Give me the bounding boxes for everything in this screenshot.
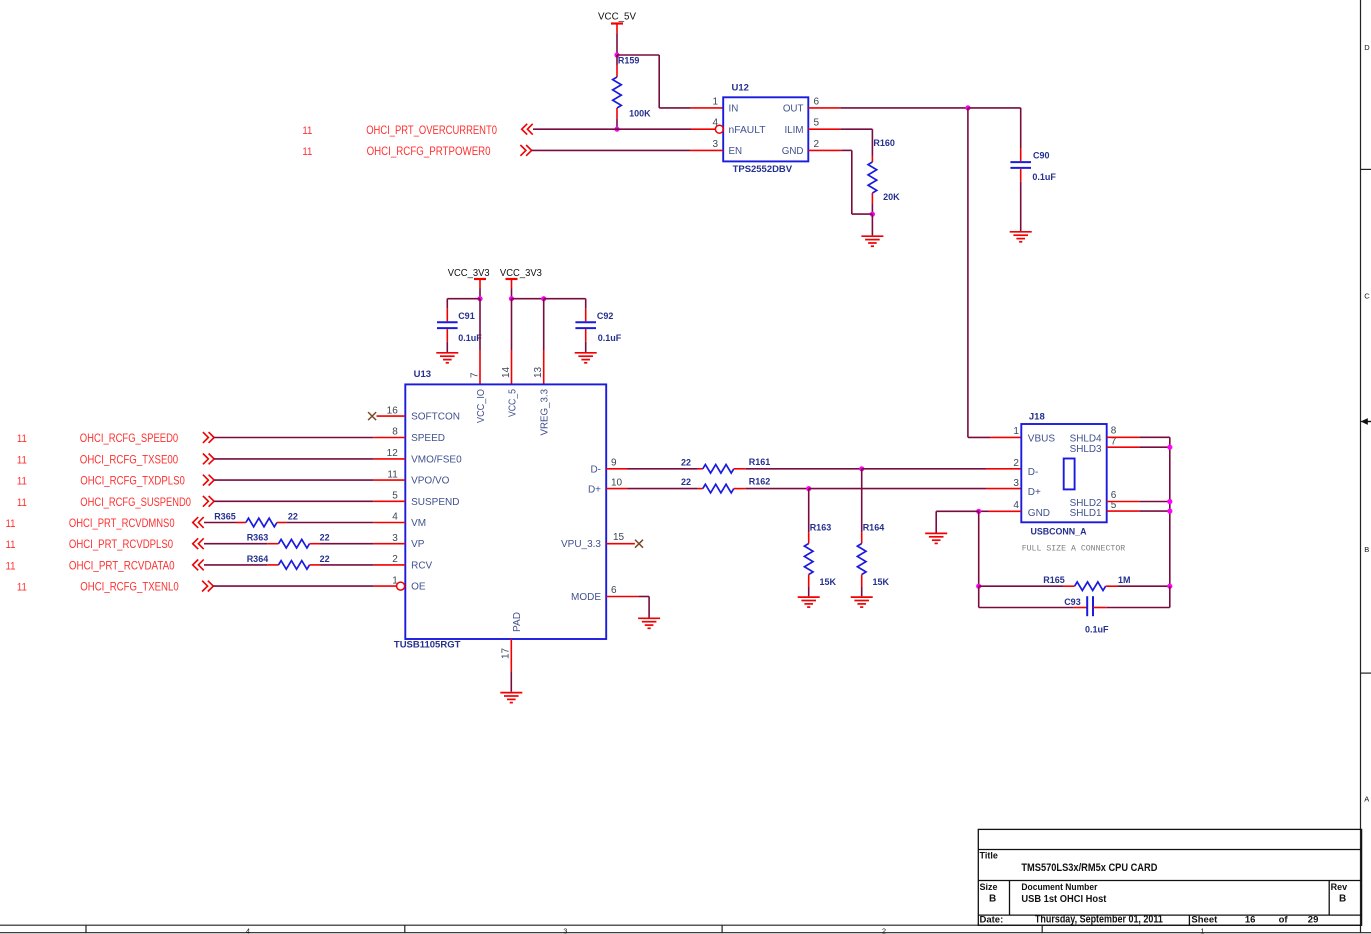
svg-text:16: 16 (1245, 915, 1256, 926)
svg-text:14: 14 (501, 366, 512, 378)
node OHCI_RCFG_PRTPOWER0 (302, 144, 490, 158)
svg-text:OHCI_PRT_RCVDPLS0: OHCI_PRT_RCVDPLS0 (69, 537, 173, 551)
wire (851, 150, 853, 214)
pin 16 stub (377, 415, 406, 417)
svg-text:0.1uF: 0.1uF (458, 333, 482, 343)
pin 2 stub J18 D- (986, 468, 1021, 470)
off-page connector OHCI_PRT_RCVDMNS0 (193, 517, 204, 528)
svg-text:R163: R163 (810, 523, 832, 533)
svg-text:VCC_5V: VCC_5V (598, 11, 636, 23)
svg-text:SHLD3: SHLD3 (1070, 444, 1102, 455)
ground under R163 (798, 597, 820, 607)
wire (1140, 446, 1170, 448)
svg-text:GND: GND (1028, 508, 1050, 519)
pointer arrow at zone C/B (1361, 418, 1368, 425)
wire (1140, 436, 1170, 438)
svg-text:D: D (1364, 43, 1370, 52)
pin 15 stub VPU_3.3 (606, 543, 635, 545)
wire (979, 585, 1064, 587)
svg-text:0.1uF: 0.1uF (598, 333, 622, 343)
svg-text:VCC_5: VCC_5 (508, 389, 519, 417)
svg-text:6: 6 (814, 96, 820, 107)
sheet border right edge (1361, 0, 1371, 933)
pin 5 stub SHLD1 (1107, 510, 1140, 512)
svg-text:IN: IN (729, 104, 739, 115)
svg-text:22: 22 (320, 533, 330, 543)
svg-text:OHCI_RCFG_SPEED0: OHCI_RCFG_SPEED0 (80, 431, 179, 445)
svg-text:20K: 20K (883, 192, 900, 202)
svg-text:OHCI_PRT_RCVDMNS0: OHCI_PRT_RCVDMNS0 (69, 516, 175, 530)
wire (978, 586, 980, 607)
op-amp U12 TPS2552DBV body (723, 83, 808, 176)
U13 top pin numbers (470, 366, 545, 378)
wire (511, 299, 513, 350)
node OHCI_PRT_RCVDMNS0 (6, 516, 175, 530)
svg-text:22: 22 (288, 512, 298, 522)
svg-text:11: 11 (6, 539, 16, 551)
svg-text:SHLD4: SHLD4 (1070, 434, 1102, 445)
svg-text:2: 2 (392, 554, 398, 565)
pin 2 stub GND (808, 149, 841, 151)
svg-text:Rev: Rev (1331, 882, 1348, 892)
J18 pin numbers (1013, 426, 1116, 511)
svg-text:SHLD1: SHLD1 (1070, 508, 1102, 519)
pin 14 stub VCC_5 (511, 350, 513, 384)
resistor (613, 77, 622, 108)
junction SHLD3 (1167, 445, 1172, 450)
pin stub VPO/VO (374, 479, 406, 481)
svg-text:RCV: RCV (411, 560, 432, 571)
svg-text:VREG_3.3: VREG_3.3 (540, 389, 551, 436)
resistor R162 (681, 477, 770, 493)
svg-text:Sheet: Sheet (1191, 915, 1218, 926)
wire (479, 289, 481, 299)
ground under PAD (500, 693, 522, 703)
wire (979, 510, 989, 512)
svg-text:C92: C92 (597, 311, 614, 321)
wire (617, 54, 659, 56)
svg-text:1M: 1M (1118, 575, 1131, 585)
wire (585, 342, 587, 352)
ground under C92 (575, 353, 597, 363)
wire (658, 55, 660, 108)
wire (543, 299, 545, 350)
no-connect on pin 16 SOFTCON (368, 412, 376, 420)
svg-text:13: 13 (533, 366, 544, 378)
off-page connector OHCI_RCFG_SPEED0 (203, 432, 214, 443)
svg-text:22: 22 (681, 477, 691, 487)
resistor (703, 465, 734, 474)
svg-text:11: 11 (302, 146, 312, 158)
resistor R159 (613, 55, 651, 119)
wire (968, 436, 990, 438)
title block (978, 829, 1361, 925)
resistor R161 (681, 457, 770, 473)
wire (214, 458, 374, 460)
wire (935, 511, 937, 532)
svg-text:SPEED: SPEED (411, 433, 445, 444)
svg-text:VPU_3.3: VPU_3.3 (561, 539, 601, 550)
wire (968, 107, 1021, 109)
svg-text:5: 5 (814, 118, 820, 129)
svg-text:R162: R162 (749, 477, 771, 487)
pin stub SUSPEND (374, 500, 406, 502)
junction R165 row (976, 584, 981, 589)
svg-text:100K: 100K (629, 109, 651, 119)
svg-text:1: 1 (1013, 426, 1019, 437)
svg-text:11: 11 (17, 433, 27, 445)
svg-text:16: 16 (387, 405, 399, 416)
wire (746, 468, 862, 470)
junction GND net (976, 509, 981, 514)
pin 6 stub MODE (606, 596, 638, 598)
off-page connector OHCI_RCFG_SUSPEND0 (203, 496, 214, 507)
wire (871, 214, 873, 235)
pin 4 stub VM (374, 522, 406, 524)
svg-text:OE: OE (411, 582, 426, 593)
ground under C90 (1010, 232, 1032, 242)
resistor (279, 561, 310, 570)
svg-text:TUSB1105RGT: TUSB1105RGT (394, 640, 461, 651)
svg-text:B: B (989, 894, 996, 905)
svg-text:VPO/VO: VPO/VO (411, 476, 450, 487)
op-amp U13 TUSB1105RGT body (394, 369, 606, 651)
svg-text:15: 15 (613, 532, 625, 543)
wire (533, 128, 617, 130)
wire (532, 149, 690, 151)
svg-text:OHCI_RCFG_TXSE00: OHCI_RCFG_TXSE00 (80, 452, 179, 466)
svg-text:Date:: Date: (980, 915, 1004, 926)
svg-text:C91: C91 (458, 311, 475, 321)
svg-text:B: B (1339, 894, 1346, 905)
no-connect on pin 15 VPU_3.3 (635, 540, 643, 548)
junction pin13 branch (541, 296, 546, 301)
svg-text:MODE: MODE (571, 592, 601, 603)
svg-text:OUT: OUT (783, 104, 804, 115)
svg-text:VBUS: VBUS (1028, 433, 1056, 444)
wire (639, 596, 650, 598)
wire (861, 469, 863, 532)
svg-text:3: 3 (392, 533, 398, 544)
svg-text:R164: R164 (863, 523, 885, 533)
svg-text:PAD: PAD (512, 612, 523, 632)
ground under R164 (851, 597, 873, 607)
resistor R364 (247, 554, 330, 569)
wire (871, 129, 873, 155)
svg-text:C: C (1364, 292, 1370, 301)
svg-text:J18: J18 (1029, 411, 1045, 422)
wire (852, 213, 873, 215)
pin 17 stub PAD (510, 639, 512, 671)
pin 6 stub SHLD2 (1107, 501, 1140, 503)
svg-text:1: 1 (712, 96, 718, 107)
title block text (980, 850, 1348, 925)
svg-text:D-: D- (1028, 467, 1039, 478)
node OHCI_RCFG_SUSPEND0 (17, 495, 191, 509)
wire (286, 522, 374, 524)
wire (321, 543, 374, 545)
svg-text:nFAULT: nFAULT (729, 125, 766, 136)
wire (861, 587, 863, 596)
off-page connector OHCI_PRT_RCVDPLS0 (193, 538, 204, 549)
wire (648, 597, 650, 618)
off-page connector OHCI_PRT_OVERCURRENT0 (522, 124, 533, 135)
pin 3 stub EN (690, 149, 723, 151)
power symbol VCC_3V3 (pin7) (474, 278, 486, 280)
resistor (1075, 582, 1106, 591)
node OHCI_RCFG_TXSE00 (17, 452, 179, 466)
wire (1020, 108, 1022, 148)
svg-text:3: 3 (1013, 478, 1019, 489)
pin 13 stub VREG_3.3 (543, 350, 545, 384)
resistor R160 (868, 138, 900, 204)
U12 pin names (729, 104, 804, 158)
wire (204, 564, 267, 566)
wire (840, 128, 872, 130)
junction node VCC_5V/R159 (614, 52, 619, 57)
svg-text:6: 6 (611, 585, 617, 596)
svg-text:17: 17 (501, 647, 512, 659)
svg-text:OHCI_RCFG_SUSPEND0: OHCI_RCFG_SUSPEND0 (80, 495, 191, 509)
svg-text:1: 1 (1200, 927, 1204, 934)
svg-text:Thursday, September 01, 2011: Thursday, September 01, 2011 (1035, 914, 1163, 926)
wire (479, 299, 481, 350)
svg-text:11: 11 (17, 497, 27, 509)
resistor (868, 162, 877, 193)
junction node OUT/VBUS (965, 105, 970, 110)
capacitor (437, 322, 458, 328)
node OHCI_PRT_OVERCURRENT0 (302, 123, 497, 137)
wire (840, 107, 968, 109)
pin 10 stub D+ (606, 488, 627, 490)
svg-text:VMO/FSE0: VMO/FSE0 (411, 454, 462, 465)
svg-text:Document Number: Document Number (1021, 882, 1097, 892)
ground at J18 GND (925, 533, 947, 543)
wire (1107, 607, 1170, 609)
wire (616, 24, 618, 35)
resistor R164 (857, 523, 889, 588)
svg-text:OHCI_PRT_OVERCURRENT0: OHCI_PRT_OVERCURRENT0 (366, 123, 497, 137)
ground under R160 (861, 236, 883, 246)
pin stub SPEED (374, 437, 406, 439)
svg-text:11: 11 (387, 469, 398, 480)
pin 1 stub IN (691, 107, 723, 109)
junction SHLD2 (1167, 499, 1172, 504)
capacitor C90 (1010, 148, 1056, 182)
power symbol VCC_3V3 (pin14) (506, 278, 518, 280)
svg-text:B: B (1364, 545, 1369, 554)
junction VCC_3V3/C91 (477, 296, 482, 301)
wire (746, 488, 809, 490)
svg-text:USBCONN_A: USBCONN_A (1031, 527, 1087, 538)
junction VCC_3V3/pin14 (509, 296, 514, 301)
svg-text:8: 8 (392, 427, 398, 438)
wire (214, 479, 374, 481)
J18 pin names (1028, 433, 1102, 519)
off-page connector OHCI_RCFG_TXENL0 (202, 581, 213, 592)
wire (808, 489, 810, 532)
resistor (703, 484, 734, 493)
wire (871, 204, 873, 214)
svg-text:0.1uF: 0.1uF (1085, 625, 1109, 635)
node OHCI_RCFG_TXENL0 (17, 580, 179, 594)
svg-text:11: 11 (302, 125, 312, 137)
pin 1 stub VBUS (990, 436, 1021, 438)
pin 8 stub SHLD4 (1107, 436, 1140, 438)
junction R165/shield (1167, 584, 1172, 589)
svg-text:EN: EN (729, 146, 743, 157)
pin 3 stub VP (374, 543, 406, 545)
svg-text:29: 29 (1308, 915, 1319, 926)
U12 pin 4 inversion bubble (715, 125, 723, 133)
wire (511, 279, 513, 289)
svg-text:4: 4 (246, 927, 250, 934)
wire shield vertical (1169, 437, 1171, 586)
connector J18 USBCONN_A body (1021, 411, 1106, 537)
svg-text:2: 2 (814, 139, 820, 150)
pin 7 stub SHLD3 (1107, 446, 1140, 448)
svg-text:R160: R160 (873, 138, 895, 148)
border zone numbers (246, 927, 1205, 934)
svg-text:TPS2552DBV: TPS2552DBV (733, 164, 793, 175)
svg-text:Size: Size (980, 882, 998, 892)
pin 7 stub VCC_IO (479, 350, 481, 384)
svg-text:A: A (1364, 795, 1369, 804)
pin 3 stub J18 D+ (986, 488, 1021, 490)
USB symbol inside J18 (1064, 459, 1075, 490)
pin 2 stub RCV (374, 564, 406, 566)
svg-text:OHCI_RCFG_TXENL0: OHCI_RCFG_TXENL0 (80, 580, 179, 594)
svg-text:SUSPEND: SUSPEND (411, 497, 459, 508)
svg-text:VCC_3V3: VCC_3V3 (500, 267, 542, 279)
svg-text:FULL SIZE A CONNECTOR: FULL SIZE A CONNECTOR (1022, 543, 1125, 553)
wire (214, 500, 374, 502)
svg-text:of: of (1279, 915, 1289, 926)
svg-text:12: 12 (387, 448, 399, 459)
wire (979, 607, 1074, 609)
wire (446, 342, 448, 352)
svg-text:D+: D+ (1028, 487, 1041, 498)
off-page connector OHCI_RCFG_TXDPLS0 (203, 475, 214, 486)
svg-text:9: 9 (611, 458, 617, 469)
sheet border bottom edge (0, 925, 1371, 933)
pin 6 stub OUT (808, 107, 840, 109)
svg-text:4: 4 (1013, 500, 1019, 511)
svg-text:R159: R159 (618, 56, 640, 66)
node OHCI_PRT_RCVDPLS0 (6, 537, 174, 551)
wire (628, 468, 698, 470)
pin 1 stub OE (374, 585, 397, 587)
svg-text:11: 11 (6, 560, 16, 572)
svg-text:R365: R365 (214, 512, 236, 522)
wire (204, 522, 237, 524)
wire (213, 585, 373, 587)
wire (1020, 182, 1022, 231)
svg-text:USB 1st OHCI Host: USB 1st OHCI Host (1021, 894, 1107, 905)
capacitor C92 (575, 309, 621, 343)
svg-text:U12: U12 (732, 83, 749, 94)
wire (808, 587, 810, 596)
svg-text:R165: R165 (1043, 575, 1065, 585)
resistor R363 (247, 533, 330, 548)
off-page connector OHCI_RCFG_PRTPOWER0 (520, 145, 531, 156)
wire (1140, 510, 1170, 512)
svg-text:TMS570LS3x/RM5x CPU CARD: TMS570LS3x/RM5x CPU CARD (1021, 862, 1157, 874)
off-page connector OHCI_RCFG_TXSE00 (203, 454, 214, 465)
svg-text:4: 4 (392, 512, 398, 523)
svg-text:11: 11 (6, 518, 16, 530)
svg-text:3: 3 (712, 139, 718, 150)
node OHCI_PRT_RCVDATA0 (6, 558, 175, 572)
svg-text:11: 11 (17, 476, 27, 488)
node OHCI_RCFG_SPEED0 (17, 431, 179, 445)
svg-text:R161: R161 (749, 457, 771, 467)
svg-text:2: 2 (1013, 458, 1019, 469)
U13 pin 1 inversion bubble (397, 582, 405, 590)
junction SHLD1 (1167, 509, 1172, 514)
svg-text:22: 22 (681, 457, 691, 467)
svg-text:11: 11 (17, 582, 27, 594)
svg-text:U13: U13 (414, 369, 431, 380)
wire (447, 298, 480, 300)
wire (809, 488, 986, 490)
wire VBUS net (967, 108, 969, 438)
wire (978, 511, 980, 586)
wire (862, 468, 986, 470)
wire (585, 299, 587, 309)
resistor (246, 518, 277, 527)
wire (204, 543, 267, 545)
wire (616, 34, 618, 55)
svg-text:10: 10 (611, 478, 623, 489)
wire (511, 289, 513, 299)
svg-text:C90: C90 (1033, 150, 1050, 160)
svg-text:C93: C93 (1064, 597, 1081, 607)
U12 pin numbers (712, 96, 819, 150)
wire (1140, 501, 1170, 503)
pin stub VMO/FSE0 (374, 458, 406, 460)
capacitor (1087, 596, 1093, 616)
resistor (804, 544, 813, 575)
U13 right pin names (561, 464, 601, 603)
svg-text:OHCI_RCFG_PRTPOWER0: OHCI_RCFG_PRTPOWER0 (367, 144, 491, 158)
pin 4 stub nFAULT (691, 128, 716, 130)
ground under C91 (436, 353, 458, 363)
wire (544, 298, 586, 300)
resistor (857, 544, 866, 575)
U13 top pin names (476, 389, 551, 632)
junction D-/R164 (859, 466, 864, 471)
wire (616, 119, 618, 129)
U13 left pin numbers (387, 405, 399, 586)
off-page connector OHCI_PRT_RCVDATA0 (193, 560, 204, 571)
svg-text:VP: VP (411, 539, 425, 550)
wire (510, 671, 512, 691)
svg-text:22: 22 (320, 554, 330, 564)
svg-text:R364: R364 (247, 554, 269, 564)
resistor (279, 539, 310, 548)
U13 left pin names (411, 412, 462, 593)
svg-text:VM: VM (411, 518, 426, 529)
wire (214, 437, 374, 439)
wire (1169, 586, 1171, 607)
svg-text:OHCI_RCFG_TXDPLS0: OHCI_RCFG_TXDPLS0 (80, 474, 185, 488)
svg-text:D-: D- (590, 464, 601, 475)
svg-text:15K: 15K (873, 577, 890, 587)
wire (617, 128, 691, 130)
wire (512, 298, 544, 300)
svg-text:2: 2 (882, 927, 886, 934)
